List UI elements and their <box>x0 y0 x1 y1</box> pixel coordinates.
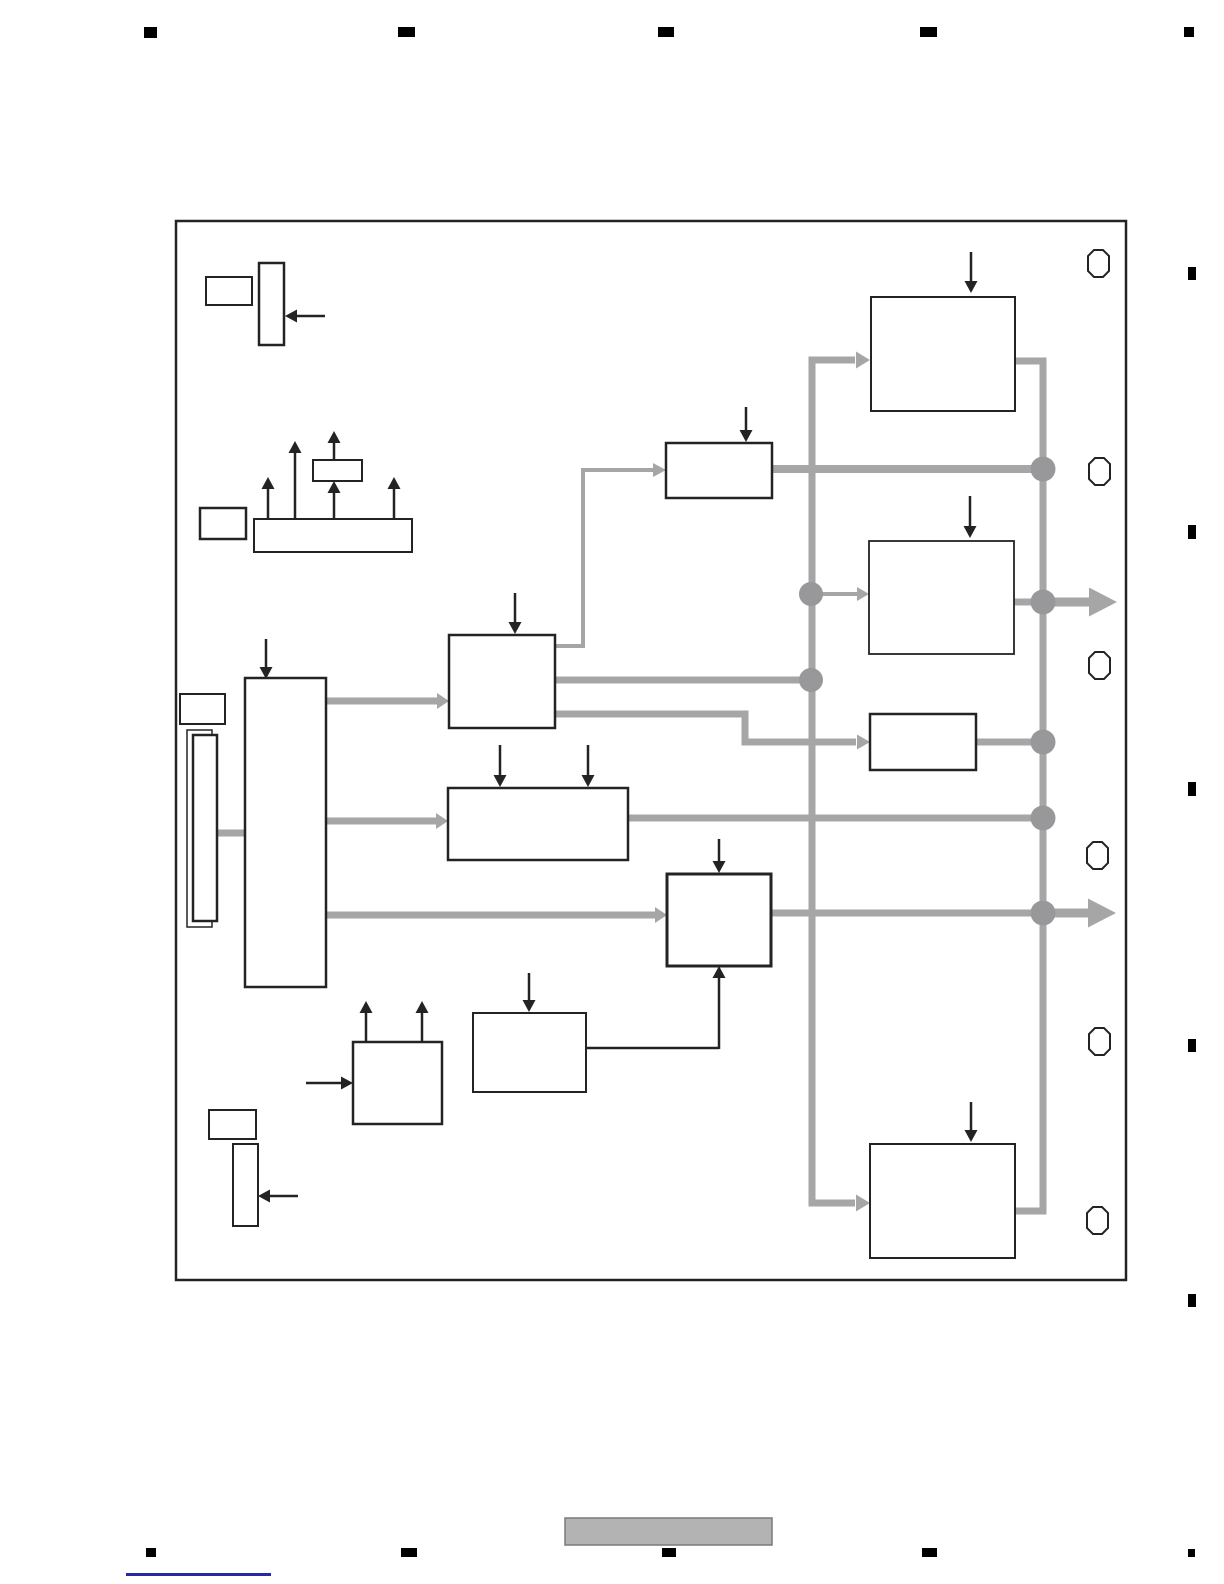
wire: U13 box output right then up into U7 box bottom <box>586 1047 719 1050</box>
registration mark right 2 <box>1188 525 1196 539</box>
wire: black arrow into S2 switch block (bottom left) <box>270 1195 298 1198</box>
registration mark top 3 <box>658 27 674 37</box>
wire: gray trunk B vertical (right bus) <box>1015 361 1043 1211</box>
arrow up 1 from U14 box <box>365 1012 368 1042</box>
registration mark bottom 3 <box>662 1548 676 1557</box>
diagram border frame <box>176 221 1126 1280</box>
arrow down into U4 tall box <box>265 639 268 668</box>
connector CN1 inner frame <box>193 735 217 921</box>
arrow down into U6 box (right) <box>587 745 590 776</box>
arrow down into U13 box <box>528 973 531 1001</box>
junction node on trunk B at y602 <box>1031 590 1056 615</box>
antenna arrow up 2 from U3 long box <box>294 452 297 519</box>
registration mark top 2 <box>398 27 415 37</box>
connector CN1 outer frame <box>187 730 212 927</box>
block U7: box middle <box>667 874 771 966</box>
block U14: box bottom left-center <box>353 1042 442 1124</box>
registration mark top 4 <box>920 27 937 37</box>
block U5: DSP box <box>449 635 555 728</box>
footer blue underline <box>126 1573 271 1576</box>
registration mark bottom 2 <box>401 1548 417 1557</box>
registration mark right 5 <box>1188 1294 1196 1307</box>
antenna arrow up 3 from U3a small box <box>333 442 336 460</box>
block S2a: small box bottom-left <box>209 1110 256 1139</box>
block S1: vertical switch top-left <box>259 263 284 345</box>
block S1a: small box top-left <box>206 277 252 305</box>
block U13: box bottom center <box>473 1013 586 1092</box>
block U3a: small box above antenna block <box>313 460 362 481</box>
block U2: small box left of antenna block <box>200 508 246 539</box>
wire: gray trunk A vertical with elbows to U9/U12 boxes <box>812 360 855 1203</box>
junction node on trunk A at y680 <box>799 668 823 692</box>
arrow down into U10 box <box>969 496 972 527</box>
wire: U4 tall box output arrow to U5 DSP <box>326 698 437 705</box>
wire: U5 DSP stepped output into U11 small box <box>555 714 856 742</box>
screw hole octagon 2 <box>1089 458 1110 485</box>
arrow down into U6 box (left) <box>499 745 502 776</box>
wire: U8 box output to trunk B <box>770 465 1040 473</box>
arrow down into U8 small box <box>745 407 748 431</box>
wire arrowhead into U9 box (trunk A top) <box>856 352 870 369</box>
wire: black arrow into U14 box left <box>306 1082 341 1085</box>
wire: U11 small box output to trunk B <box>975 739 1040 746</box>
block U9: box top right (power amp) <box>871 297 1015 411</box>
wire: U6 box output to trunk B <box>627 815 1040 822</box>
screw hole octagon 4 <box>1087 842 1108 869</box>
wire: U7 box output to trunk B <box>770 910 1040 917</box>
arrow down into U7 box <box>718 839 721 862</box>
block U10: box middle right <box>869 541 1014 654</box>
junction node on trunk B at y469 <box>1031 457 1056 482</box>
registration mark bottom 1 <box>146 1548 156 1557</box>
block U11: small box right <box>870 714 976 770</box>
screw hole octagon 1 <box>1088 250 1109 277</box>
arrow down into U5 DSP box <box>514 593 517 623</box>
registration mark top 1 <box>144 27 157 38</box>
junction node on trunk B at y818 <box>1031 806 1056 831</box>
junction node on trunk B at y913 <box>1031 901 1056 926</box>
block U12: box bottom right (power amp) <box>870 1144 1015 1258</box>
registration mark top 5 <box>1184 27 1194 37</box>
registration mark right 3 <box>1188 782 1196 796</box>
block S2: vertical switch bottom-left <box>233 1144 258 1226</box>
registration mark bottom 5 <box>1188 1549 1195 1557</box>
registration mark right 1 <box>1188 267 1196 280</box>
wire: trunk A tap arrow into U10 box <box>822 592 858 596</box>
block U4: tall main box (microcomputer) <box>245 678 326 987</box>
block U6: wide box below DSP <box>448 788 628 860</box>
block CN1a: small box above connector <box>180 694 225 724</box>
wire: output arrow right (line out lower) <box>1043 909 1090 918</box>
junction node on trunk B at y742 <box>1031 730 1056 755</box>
antenna arrow up 1 from U3 long box <box>267 488 270 519</box>
wire: output arrow right (line out upper) <box>1043 598 1090 607</box>
registration mark bottom 4 <box>922 1548 937 1557</box>
screw hole octagon 3 <box>1089 652 1110 679</box>
arrow down into U9 box <box>970 252 973 282</box>
wire: black arrow into S1 switch block (top left) <box>297 315 325 318</box>
arrow up 2 from U14 box <box>421 1012 424 1042</box>
wire: U5 DSP output up to U8 small box <box>555 470 653 646</box>
wire arrowhead into U12 box (trunk A bottom) <box>856 1195 870 1212</box>
wire: U5 DSP output to trunk A junction <box>555 677 800 684</box>
screw hole octagon 5 <box>1089 1028 1110 1055</box>
footer gray label box <box>565 1518 772 1545</box>
wire: connector CN1 stub to U4 tall box <box>217 830 245 837</box>
block U3: antenna/tuner long box <box>254 519 412 552</box>
antenna arrow up 5 from U3 long box <box>393 488 396 519</box>
junction node on trunk A at y594 <box>799 582 823 606</box>
wire: U4 tall box long output arrow to U7 box <box>326 912 655 919</box>
arrow down into U12 box <box>970 1102 973 1131</box>
screw hole octagon 6 <box>1087 1207 1108 1234</box>
registration mark right 4 <box>1188 1039 1196 1052</box>
wire: U4 tall box output arrow to U6 box <box>326 818 436 825</box>
antenna arrow up 4 into U3a small box <box>333 492 336 519</box>
wire: U10 box output to trunk B <box>1013 599 1040 606</box>
block U8: small box top middle <box>666 443 772 498</box>
